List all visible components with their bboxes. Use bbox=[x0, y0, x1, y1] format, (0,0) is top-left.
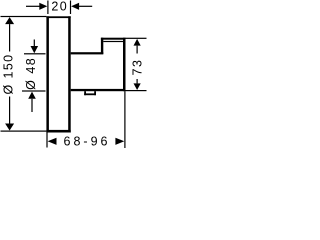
dim Ø48 top arrowhead bbox=[31, 46, 39, 53]
tab right edge bbox=[94, 91, 96, 95]
dim 73 top extension line bbox=[126, 38, 147, 39]
dim Ø150 bottom arrowhead bbox=[5, 124, 14, 131]
dim 68-96 right extension line bbox=[124, 91, 125, 148]
sleeve top outline bbox=[71, 52, 104, 54]
svg-text:Ø 150: Ø 150 bbox=[2, 53, 16, 94]
dim 20 right arrowhead bbox=[71, 3, 79, 10]
svg-text:68-96: 68-96 bbox=[64, 135, 111, 149]
dim Ø48 bottom arrowhead bbox=[28, 92, 36, 99]
handle knob top edge bbox=[101, 38, 126, 40]
dim Ø150 line lower segment bbox=[9, 97, 10, 124]
escutcheon plate left edge (wall face) bbox=[46, 16, 49, 132]
dim 20 right extension line bbox=[70, 1, 71, 15]
dim 20 left leader bbox=[26, 6, 41, 7]
dim Ø150 top arrowhead bbox=[5, 17, 14, 24]
escutcheon plate right edge (front face) bbox=[68, 16, 71, 132]
dim 68-96 left extension line bbox=[46, 133, 47, 148]
dim 20 right leader bbox=[78, 6, 92, 7]
escutcheon plate top edge bbox=[46, 16, 70, 18]
dim Ø48 top extension line bbox=[24, 53, 46, 54]
tab bottom edge bbox=[84, 93, 96, 95]
escutcheon plate bottom edge bbox=[46, 130, 70, 133]
dim Ø48 bottom leader bbox=[31, 99, 32, 112]
dim 73 top arrowhead bbox=[134, 39, 141, 46]
dim Ø150 line upper segment bbox=[9, 24, 10, 51]
dim 68-96 right arrowhead bbox=[115, 138, 124, 145]
dim Ø48 top leader bbox=[34, 40, 35, 47]
dim 73 bottom arrowhead bbox=[134, 83, 141, 90]
handle knob front edge bbox=[123, 38, 126, 91]
dim 68-96 left arrowhead bbox=[48, 138, 57, 145]
svg-text:73: 73 bbox=[131, 59, 145, 76]
handle knob left edge bbox=[101, 38, 103, 54]
sleeve and handle bottom outline bbox=[71, 89, 126, 91]
dim Ø48 bottom extension line bbox=[22, 90, 46, 91]
dim 73 line lower segment bbox=[137, 79, 138, 83]
dim Ø150 top extension line bbox=[1, 16, 47, 17]
dim Ø150 bottom extension line bbox=[1, 131, 47, 132]
svg-text:Ø 48: Ø 48 bbox=[24, 57, 38, 90]
handle knob cap inner line bbox=[103, 41, 123, 42]
svg-text:20: 20 bbox=[51, 0, 68, 14]
dim 73 line upper segment bbox=[137, 46, 138, 54]
dim 20 left extension line bbox=[47, 1, 48, 15]
tab left edge bbox=[84, 91, 86, 95]
dim 20 left arrowhead bbox=[39, 3, 47, 10]
dim 73 bottom extension line bbox=[126, 90, 147, 91]
